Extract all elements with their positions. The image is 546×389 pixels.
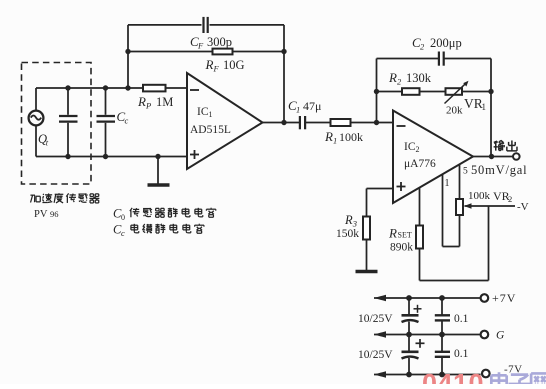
- svg-text:1M: 1M: [156, 95, 173, 109]
- svg-text:1: 1: [209, 110, 213, 119]
- svg-text:R: R: [388, 70, 397, 85]
- svg-text:PV: PV: [34, 209, 48, 220]
- svg-text:AD515L: AD515L: [190, 124, 231, 136]
- svg-text:R: R: [324, 129, 333, 144]
- svg-text:-V: -V: [517, 201, 529, 213]
- svg-text:130k: 130k: [406, 71, 432, 85]
- svg-text:c: c: [125, 116, 129, 126]
- svg-text:0.1: 0.1: [454, 313, 469, 325]
- svg-text:F: F: [197, 41, 204, 51]
- svg-text:96: 96: [50, 209, 59, 219]
- svg-text:3: 3: [352, 219, 357, 229]
- svg-text:IC: IC: [197, 106, 209, 118]
- svg-text:2: 2: [508, 194, 512, 204]
- svg-text:2: 2: [397, 77, 402, 87]
- svg-text:2: 2: [416, 145, 420, 154]
- svg-text:5: 5: [463, 167, 468, 177]
- svg-text:1: 1: [445, 178, 450, 189]
- svg-text:+7V: +7V: [492, 291, 516, 305]
- svg-text:0.1: 0.1: [454, 348, 469, 360]
- svg-text:150k: 150k: [336, 228, 359, 240]
- svg-text:0: 0: [121, 213, 125, 222]
- svg-text:20k: 20k: [446, 105, 463, 117]
- svg-text:10/25V: 10/25V: [358, 313, 393, 325]
- svg-text:890k: 890k: [390, 242, 413, 254]
- svg-text:300p: 300p: [207, 35, 232, 49]
- svg-text:10/25V: 10/25V: [358, 349, 393, 361]
- svg-text:R: R: [344, 213, 353, 227]
- svg-text:μA776: μA776: [404, 158, 436, 170]
- svg-text:100k: 100k: [468, 190, 491, 202]
- svg-text:200μp: 200μp: [430, 36, 462, 50]
- svg-text:47μ: 47μ: [303, 99, 321, 113]
- svg-text:VR: VR: [464, 96, 483, 111]
- svg-text:G: G: [496, 330, 505, 342]
- svg-text:F: F: [213, 64, 220, 74]
- svg-text:0410: 0410: [422, 369, 484, 385]
- svg-text:10G: 10G: [223, 58, 245, 72]
- svg-text:1: 1: [333, 136, 337, 146]
- svg-text:R: R: [137, 94, 146, 109]
- svg-text:100k: 100k: [339, 130, 363, 144]
- svg-text:P: P: [145, 101, 151, 111]
- svg-text:c: c: [121, 228, 125, 238]
- svg-text:R: R: [205, 57, 214, 72]
- svg-text:1: 1: [482, 102, 487, 112]
- svg-text:50mV/gal: 50mV/gal: [471, 163, 527, 177]
- svg-text:1: 1: [296, 105, 300, 115]
- svg-text:SET: SET: [398, 231, 412, 240]
- svg-text:R: R: [388, 226, 397, 241]
- svg-text:IC: IC: [404, 141, 416, 153]
- svg-text:2: 2: [420, 42, 425, 52]
